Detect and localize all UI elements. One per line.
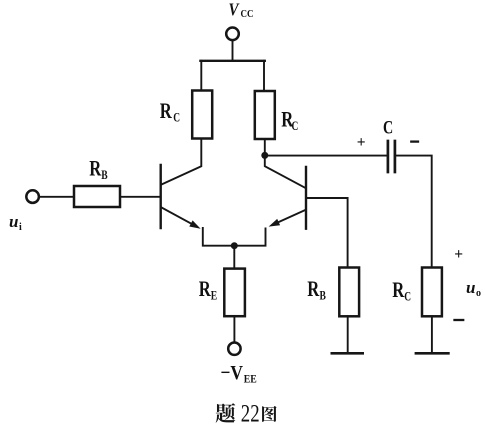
label ui bbox=[9, 212, 22, 233]
label RC right bbox=[281, 106, 298, 133]
svg-text:E: E bbox=[211, 289, 217, 303]
label uo output bbox=[466, 278, 481, 299]
wire RB to base T1 bbox=[120, 196, 160, 198]
svg-text:B: B bbox=[101, 168, 107, 182]
resistor RB bottom bbox=[339, 268, 359, 317]
svg-text:22: 22 bbox=[241, 398, 260, 427]
svg-text:R: R bbox=[199, 276, 212, 301]
node output junction dot bbox=[261, 152, 268, 159]
svg-text:o: o bbox=[476, 288, 481, 299]
svg-text:+: + bbox=[357, 134, 366, 151]
resistor RE bbox=[224, 269, 245, 317]
wire T2 emitter corner bbox=[234, 229, 265, 246]
svg-text:C: C bbox=[404, 289, 411, 303]
svg-text:C: C bbox=[292, 119, 299, 133]
wire RC output to ground bbox=[431, 316, 433, 353]
node VCC label bbox=[229, 0, 254, 20]
svg-text:CC: CC bbox=[241, 8, 254, 20]
wire node to capacitor bbox=[265, 155, 387, 157]
label RC left bbox=[160, 98, 180, 125]
transistor T2 bar bbox=[305, 167, 307, 229]
node emitter junction dot bbox=[231, 242, 238, 249]
label minus capacitor bbox=[411, 140, 418, 142]
wire left collector bbox=[162, 139, 202, 185]
svg-text:B: B bbox=[320, 289, 326, 303]
svg-text:−V: −V bbox=[221, 362, 244, 384]
label plus output bbox=[454, 246, 463, 263]
label minus output bbox=[455, 319, 464, 321]
resistor RC right bbox=[255, 91, 275, 139]
svg-text:R: R bbox=[307, 276, 320, 301]
resistor RC left bbox=[192, 91, 212, 139]
terminal ui input bbox=[26, 190, 39, 203]
label RE bbox=[199, 276, 217, 303]
wire RB bottom to ground bbox=[347, 316, 349, 353]
wire right collector bbox=[265, 155, 306, 188]
transistor T1 bar bbox=[159, 165, 161, 228]
ground RB bbox=[332, 352, 363, 355]
wire right rail drop bbox=[263, 61, 265, 91]
resistor RB input bbox=[74, 186, 120, 207]
svg-text:C: C bbox=[173, 110, 180, 124]
caption char tu bbox=[262, 406, 277, 422]
svg-text:+: + bbox=[454, 246, 463, 263]
label plus capacitor bbox=[357, 134, 366, 151]
label RB bottom bbox=[307, 276, 326, 303]
wire left rail drop bbox=[200, 61, 202, 91]
label -VEE bbox=[221, 362, 258, 386]
wire T2 base bbox=[306, 198, 348, 268]
terminal -VEE bbox=[228, 343, 240, 355]
wire T1 emitter corner bbox=[203, 228, 235, 246]
wire top rail bbox=[200, 60, 264, 62]
svg-text:i: i bbox=[19, 222, 22, 233]
wire input to RB bbox=[39, 196, 74, 198]
svg-text:R: R bbox=[160, 98, 173, 123]
svg-text:u: u bbox=[466, 278, 475, 297]
ground RC output bbox=[416, 352, 449, 355]
svg-text:u: u bbox=[9, 212, 18, 231]
transistor T2 emitter bbox=[273, 210, 306, 225]
svg-text:EE: EE bbox=[244, 373, 257, 385]
wire RC right to node bbox=[264, 139, 266, 155]
label RB input bbox=[89, 155, 107, 182]
transistor T1 emitter bbox=[162, 208, 197, 227]
label RC output bbox=[392, 277, 411, 304]
wire emitter node to RE bbox=[233, 246, 235, 269]
wire RE to terminal bbox=[233, 316, 235, 342]
wire capacitor to output column bbox=[396, 156, 432, 268]
caption char ti bbox=[216, 403, 236, 423]
capacitor C plates bbox=[387, 141, 390, 172]
wire VCC stem bbox=[232, 41, 234, 60]
svg-text:C: C bbox=[383, 118, 393, 139]
svg-text:R: R bbox=[89, 155, 102, 180]
label C bbox=[383, 118, 393, 139]
svg-text:V: V bbox=[229, 0, 240, 20]
terminal VCC bbox=[226, 28, 239, 41]
resistor RC output bbox=[422, 268, 442, 317]
